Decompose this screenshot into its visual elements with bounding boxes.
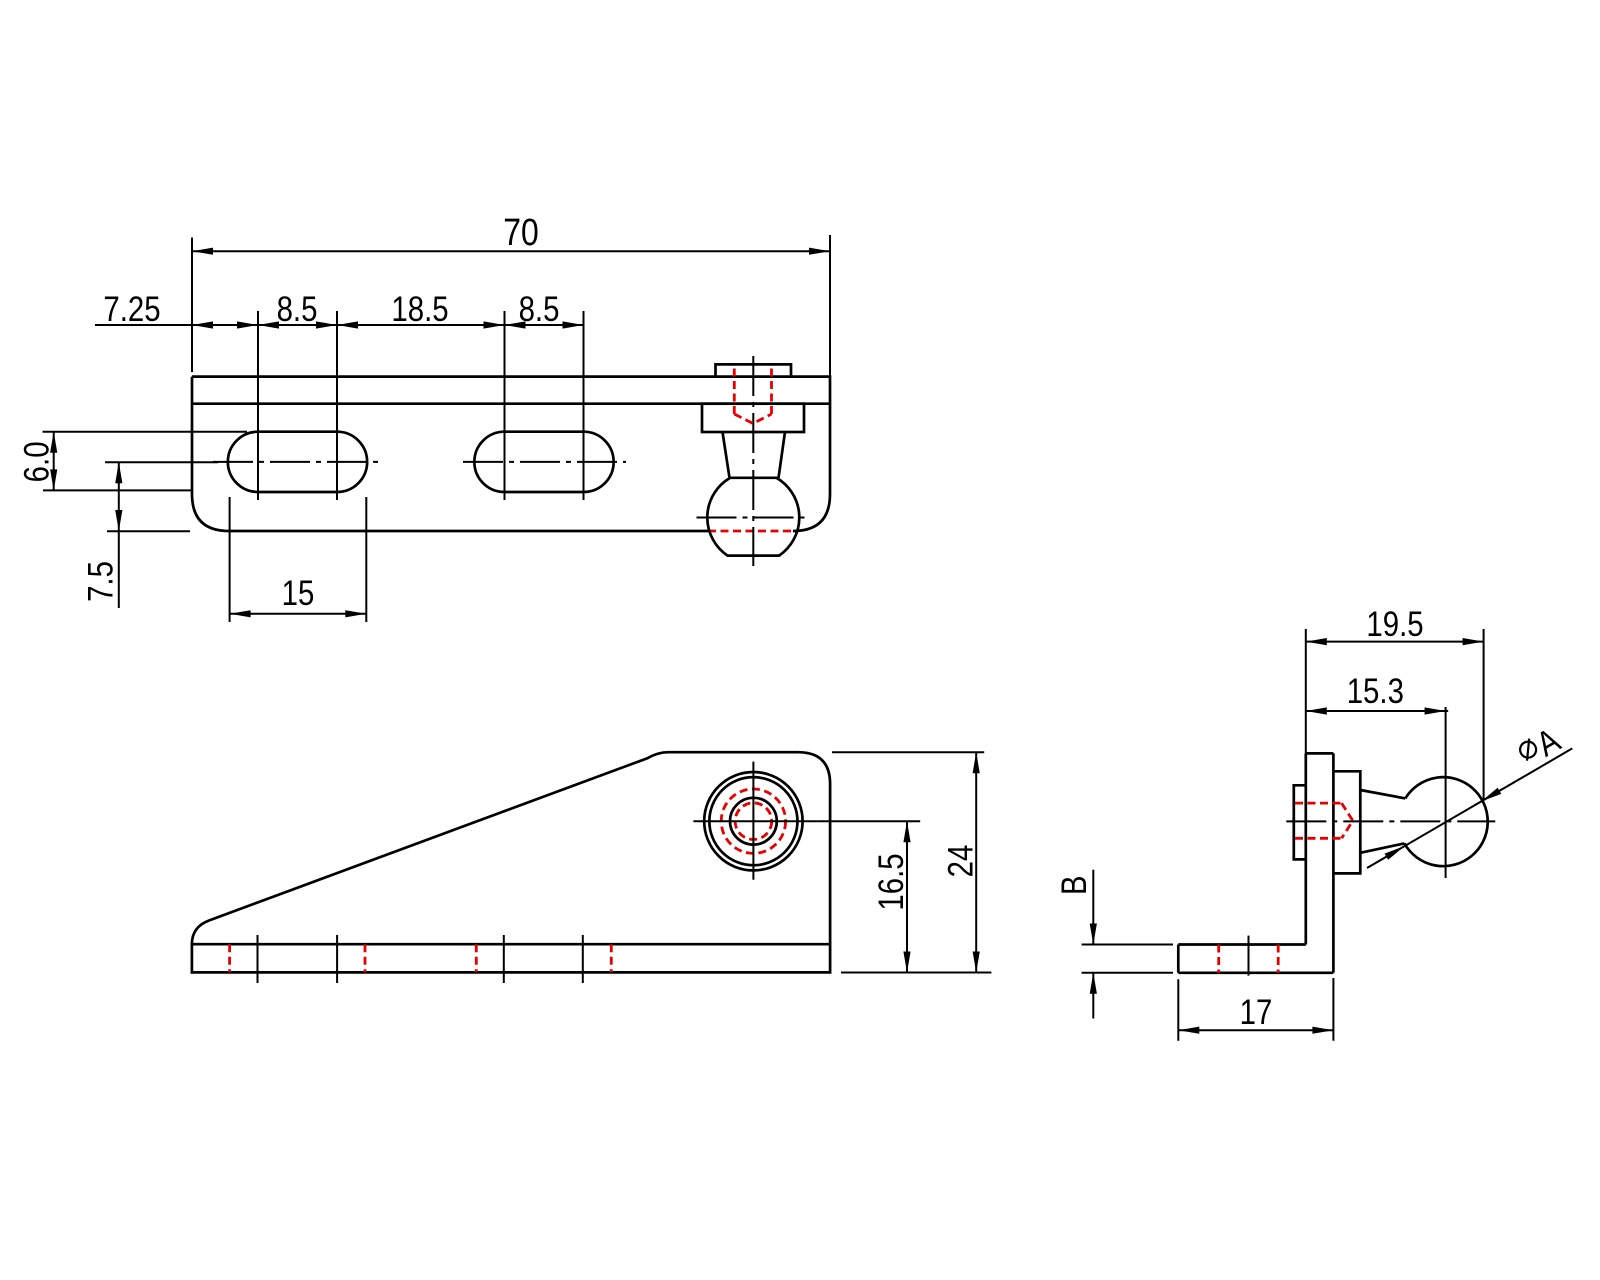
front view circle h centerline (693, 820, 817, 822)
dim 17 extension lines (1178, 978, 1333, 1041)
side view ball center vertical line (1445, 707, 1447, 878)
svg-text:7.25: 7.25 (103, 290, 160, 329)
dim 15.3 arrows (1306, 707, 1327, 714)
front view hidden thread circle (721, 789, 785, 853)
dim 70 arrows (192, 248, 213, 255)
top view plate bottom edge (visible part) (229, 530, 708, 533)
dim 16.5 arrows (903, 821, 910, 842)
front view shank circle (730, 798, 777, 845)
side view neck (1360, 790, 1405, 853)
dim 7.5 arrows (115, 462, 122, 483)
top view stud vertical centerline (752, 356, 754, 566)
svg-text:19.5: 19.5 (1366, 605, 1423, 644)
top view slot 1 centerline (213, 461, 380, 463)
side view ball (1404, 777, 1487, 866)
dim 16.5 extension line (817, 820, 920, 822)
top view bend line (192, 402, 830, 405)
svg-text:15.3: 15.3 (1347, 672, 1404, 711)
side view hidden slot ends (1219, 945, 1279, 973)
dim 15 arrows (230, 610, 251, 617)
dim diameter A arrows (1481, 788, 1501, 802)
side view washer (1333, 771, 1360, 873)
top view ball horizontal centerline (697, 517, 809, 519)
dim row extension lines (258, 311, 584, 500)
top view plate outline (192, 377, 830, 531)
dim 17 arrows (1178, 1027, 1199, 1034)
front view washer circle (709, 777, 797, 865)
dim 7.5 extension lines (105, 462, 218, 531)
side view bolt head (1294, 785, 1306, 859)
top view bolt head tab (716, 364, 792, 376)
top view slot 2 (474, 432, 613, 492)
dim diameter A label (1513, 720, 1566, 773)
dim 15 extension lines (230, 497, 367, 622)
front view outline (192, 752, 830, 972)
dim 24 line (975, 752, 977, 972)
dim 24 arrows (973, 752, 980, 773)
dim 19.5 arrows (1306, 638, 1327, 645)
top view hidden tapped hole (734, 369, 771, 424)
top view plate bottom edge hidden behind ball (708, 530, 794, 533)
side view leg centerline (1248, 936, 1250, 980)
dim 19.5 line (1306, 641, 1484, 643)
dim 6.0 arrows (50, 432, 57, 453)
dim row arrows (192, 321, 213, 328)
dim 17 line (1178, 1029, 1333, 1031)
dim 16.5 line (906, 821, 908, 972)
dim B line (1092, 870, 1094, 1019)
svg-text:7.5: 7.5 (81, 561, 120, 602)
top view ball (707, 478, 799, 556)
dim 7.5 line (118, 462, 120, 608)
svg-text:24: 24 (941, 845, 980, 878)
dim 15 line (230, 613, 367, 615)
top view washer (702, 404, 804, 432)
dim row line (95, 324, 584, 326)
svg-text:17: 17 (1240, 993, 1273, 1032)
svg-text:16.5: 16.5 (871, 853, 910, 910)
top view slot 1 (228, 432, 367, 492)
side view L-bracket outline (1178, 753, 1333, 972)
svg-text:18.5: 18.5 (391, 290, 448, 329)
dim 6.0 extension lines (43, 432, 248, 491)
svg-text:70: 70 (503, 211, 539, 253)
front view ball circle (704, 772, 802, 870)
dim 15.3 line (1306, 710, 1448, 712)
top view stud neck (723, 432, 786, 478)
front view base top line (192, 943, 830, 946)
dim B extension lines (1082, 945, 1173, 973)
dim 19.5 extension lines (1306, 629, 1484, 800)
top view slot 2 centerline (463, 461, 626, 463)
svg-text:8.5: 8.5 (519, 290, 560, 329)
svg-text:B: B (1054, 875, 1093, 895)
svg-text:6.0: 6.0 (17, 441, 56, 482)
dim 24 extension lines (832, 752, 991, 972)
svg-text:15: 15 (282, 574, 315, 613)
front view hidden minor circle (735, 803, 772, 840)
front view slot arc center lines (258, 935, 583, 983)
front view hidden slot ends (230, 944, 612, 972)
dim B arrows (1090, 924, 1097, 945)
dim diameter A leader (1367, 748, 1572, 868)
dim 6.0 line (53, 432, 55, 491)
dim 70 extension lines (192, 235, 830, 377)
front view circle v centerline (752, 762, 754, 880)
side view hidden tapped hole (1295, 803, 1353, 838)
dim 70 line (192, 250, 830, 252)
side view horizontal centerline (1286, 820, 1495, 822)
svg-text:8.5: 8.5 (277, 290, 318, 329)
